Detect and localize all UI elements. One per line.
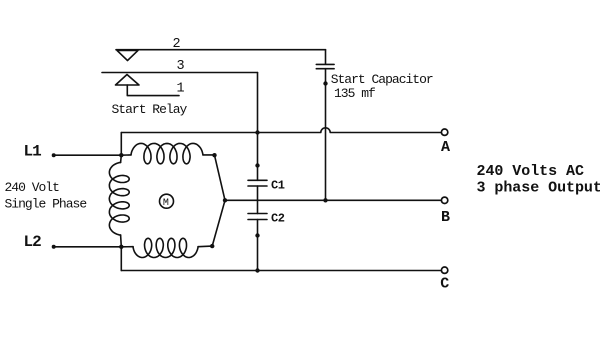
node line C junction — [255, 268, 259, 272]
node line B / start capacitor junction — [323, 198, 327, 202]
svg-text:3: 3 — [177, 59, 185, 74]
wire below C2 to bottom rail — [257, 220, 259, 271]
svg-text:2: 2 — [173, 37, 181, 52]
terminal C circle — [441, 267, 447, 273]
node below start capacitor — [323, 81, 327, 85]
svg-text:Single Phase: Single Phase — [5, 197, 87, 212]
svg-text:C2: C2 — [271, 212, 285, 226]
node above C1 — [255, 163, 259, 167]
wire L1 lead — [54, 154, 122, 156]
capacitor start capacitor plates — [316, 64, 334, 68]
svg-text:B: B — [441, 209, 450, 226]
node L2 lead dot — [52, 245, 56, 249]
wire line C bottom rail — [121, 270, 441, 272]
node below C2 — [255, 233, 259, 237]
svg-text:A: A — [441, 139, 450, 156]
wire relay contact line 2 — [116, 49, 326, 51]
relay armature triangle — [116, 75, 140, 86]
svg-text:1: 1 — [177, 82, 185, 97]
inductor motor top winding — [121, 154, 131, 156]
node L1 lead dot — [52, 153, 56, 157]
node motor top-right junction — [212, 153, 216, 157]
wire motor right side diagonals — [212, 155, 225, 246]
wire line A top rail with hop over start-capacitor wire — [121, 128, 441, 133]
wire left edge upper segment — [120, 133, 122, 156]
inductor motor left winding — [120, 155, 123, 162]
inductor motor bottom winding — [121, 246, 133, 248]
wire relay contact line 3 — [102, 72, 258, 74]
svg-text:Start Capacitor: Start Capacitor — [331, 72, 433, 87]
svg-text:L2: L2 — [24, 233, 42, 251]
wire start capacitor branch top — [325, 50, 327, 64]
motor M circle — [160, 194, 174, 208]
node motor top-left junction — [119, 153, 123, 157]
wire relay line 3 vertical drop — [257, 73, 259, 181]
wire left edge lower segment — [120, 247, 122, 271]
svg-text:135 mf: 135 mf — [334, 86, 375, 101]
svg-text:C: C — [440, 276, 449, 293]
svg-text:L1: L1 — [24, 143, 42, 161]
node motor bottom-left junction — [119, 245, 123, 249]
svg-text:240 Volts AC: 240 Volts AC — [477, 163, 584, 180]
terminal A circle — [441, 129, 447, 135]
svg-text:M: M — [163, 198, 169, 209]
svg-text:240 Volt: 240 Volt — [5, 180, 60, 195]
svg-text:Start Relay: Start Relay — [112, 102, 188, 117]
node motor right-mid junction — [223, 198, 227, 202]
node line A / relay-3 wire junction — [255, 130, 259, 134]
node motor bottom-right junction — [210, 244, 214, 248]
wire between C1 and C2 — [257, 186, 259, 214]
svg-text:C1: C1 — [271, 179, 285, 193]
capacitor C1 plates — [248, 180, 267, 186]
wire L2 lead — [54, 246, 122, 248]
capacitor C2 plates — [248, 214, 267, 220]
wire line B — [225, 199, 441, 201]
relay contact 2 triangle — [117, 50, 138, 60]
svg-text:3 phase Output: 3 phase Output — [477, 179, 600, 196]
wire start capacitor branch down to line B — [325, 69, 327, 201]
terminal B circle — [441, 197, 447, 203]
wire relay terminal 1 — [127, 85, 179, 96]
